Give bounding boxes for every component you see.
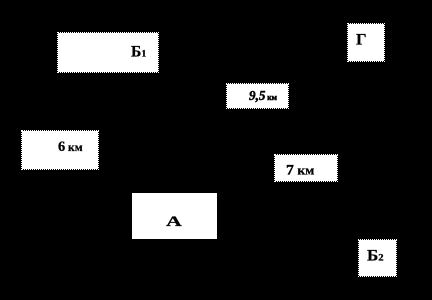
distance 7 km label [286, 162, 314, 178]
distance 7 km box [275, 155, 337, 181]
node B1 box [58, 33, 158, 72]
node G box [348, 24, 384, 61]
distance 9,5 km label [249, 90, 277, 104]
distance 6 km box [22, 131, 98, 169]
node G label [356, 32, 367, 47]
node B2 box [359, 240, 396, 276]
node B2 label [367, 248, 384, 264]
node B1 label [131, 44, 146, 59]
node A label [166, 214, 182, 229]
node A box [132, 193, 217, 239]
distance 6 km label [58, 140, 83, 155]
distance 9,5 km box [227, 84, 288, 108]
